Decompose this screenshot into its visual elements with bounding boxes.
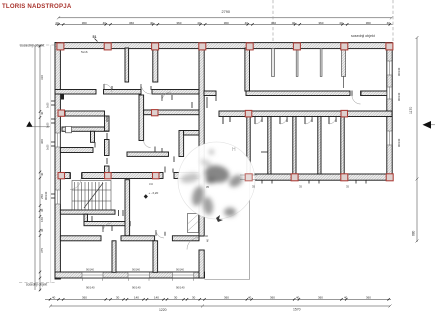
svg-text:360: 360 <box>271 21 276 25</box>
svg-text:90/140: 90/140 <box>397 67 401 76</box>
svg-text:40: 40 <box>248 295 252 299</box>
svg-text:360: 360 <box>176 21 181 25</box>
svg-text:51: 51 <box>93 35 97 39</box>
svg-text:40: 40 <box>344 295 348 299</box>
svg-text:5x16: 5x16 <box>81 50 88 54</box>
svg-text:160: 160 <box>40 217 44 222</box>
svg-text:90/140: 90/140 <box>44 191 48 200</box>
svg-text:300: 300 <box>40 139 44 144</box>
svg-text:30: 30 <box>174 295 178 299</box>
svg-text:40: 40 <box>205 234 208 238</box>
svg-text:360: 360 <box>224 21 229 25</box>
svg-text:40: 40 <box>103 21 107 25</box>
svg-text:5x30: 5x30 <box>47 144 50 150</box>
svg-text:1170: 1170 <box>409 107 413 114</box>
svg-text:140: 140 <box>154 295 159 299</box>
svg-text:5x30: 5x30 <box>47 122 50 128</box>
svg-text:5x30: 5x30 <box>47 102 50 108</box>
svg-text:H: H <box>232 147 236 153</box>
svg-text:40: 40 <box>339 21 343 25</box>
svg-text:360: 360 <box>366 295 371 299</box>
svg-text:360: 360 <box>270 295 275 299</box>
svg-text:40: 40 <box>206 239 210 242</box>
svg-text:sosednji objekt: sosednji objekt <box>20 43 44 47</box>
svg-text:1220: 1220 <box>159 308 167 312</box>
svg-text:90/140: 90/140 <box>176 286 185 290</box>
svg-text:360: 360 <box>318 295 323 299</box>
svg-text:40: 40 <box>52 295 56 299</box>
svg-text:+ -3,20: + -3,20 <box>149 191 159 195</box>
svg-text:360: 360 <box>224 295 229 299</box>
svg-text:40: 40 <box>40 172 44 176</box>
svg-text:90/140: 90/140 <box>132 268 140 272</box>
svg-text:360: 360 <box>366 21 371 25</box>
svg-text:sosednji objekt: sosednji objekt <box>26 283 47 287</box>
svg-text:375: 375 <box>40 248 44 253</box>
svg-text:90/140: 90/140 <box>397 138 401 147</box>
svg-text:880: 880 <box>412 230 416 236</box>
svg-text:40: 40 <box>296 295 300 299</box>
svg-text:40: 40 <box>150 21 154 25</box>
svg-text:90/140: 90/140 <box>132 286 141 290</box>
svg-text:2790: 2790 <box>222 10 230 14</box>
svg-text:360: 360 <box>318 21 323 25</box>
svg-text:1570: 1570 <box>293 308 301 312</box>
svg-text:TLORIS NADSTROPJA: TLORIS NADSTROPJA <box>2 3 72 10</box>
svg-text:35: 35 <box>346 185 349 189</box>
svg-text:30: 30 <box>40 228 44 232</box>
svg-text:40: 40 <box>197 21 201 25</box>
svg-text:360: 360 <box>129 21 134 25</box>
svg-text:90/140: 90/140 <box>86 286 95 290</box>
svg-text:30: 30 <box>40 208 44 212</box>
svg-text:30: 30 <box>116 295 120 299</box>
svg-text:310: 310 <box>40 75 44 80</box>
svg-text:40: 40 <box>55 21 59 25</box>
svg-text:90/140: 90/140 <box>86 268 94 272</box>
svg-text:40: 40 <box>387 21 391 25</box>
svg-text:90/140: 90/140 <box>176 268 184 272</box>
svg-text:140: 140 <box>134 295 139 299</box>
svg-text:40: 40 <box>40 111 44 115</box>
svg-text:250: 250 <box>40 194 44 199</box>
svg-text:30: 30 <box>192 295 196 299</box>
svg-text:35: 35 <box>299 185 302 189</box>
svg-text:90/140: 90/140 <box>397 92 401 101</box>
svg-text:sosednji objekt: sosednji objekt <box>351 34 375 38</box>
svg-text:360: 360 <box>82 21 87 25</box>
svg-text:360: 360 <box>82 295 87 299</box>
svg-text:40: 40 <box>245 21 249 25</box>
svg-text:162: 162 <box>149 183 154 186</box>
svg-text:40: 40 <box>292 21 296 25</box>
